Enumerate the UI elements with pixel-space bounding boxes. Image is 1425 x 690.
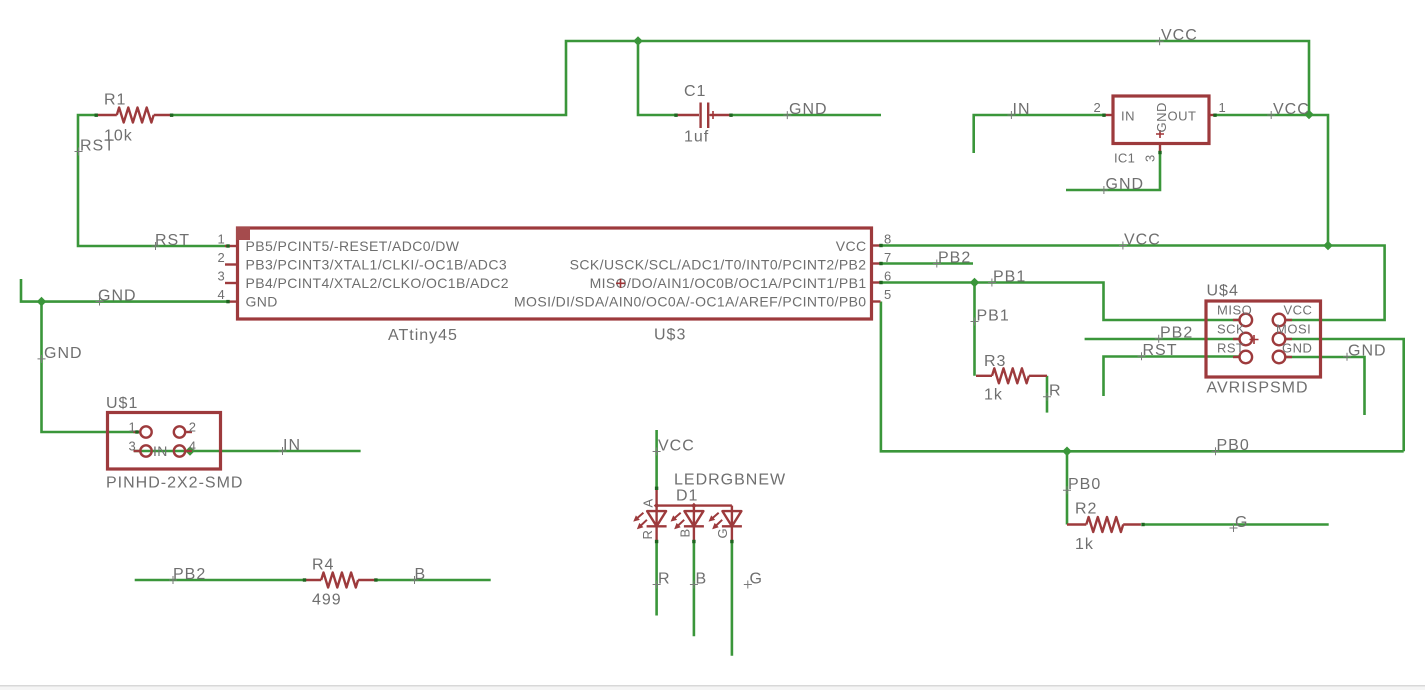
wire end dot IC1 in: [1102, 114, 1105, 117]
pin 8 stub: [873, 244, 881, 246]
pin 4 stub: [228, 300, 236, 302]
wire net GND stub at IC1 pin3: [1066, 153, 1160, 191]
net label PB1 vertical: [971, 308, 1010, 326]
R1 lead left: [96, 114, 117, 116]
wire net PB1 branch to R3: [973, 283, 976, 376]
pin 2 stub: [186, 431, 192, 433]
svg-text:GND: GND: [789, 101, 828, 118]
net label PB1 at pin6: [988, 269, 1026, 287]
net label IN at IC1: [1007, 101, 1030, 119]
wire end dot D1 G: [730, 540, 733, 543]
svg-text:OUT: OUT: [1168, 109, 1197, 124]
pin 1 stub: [225, 245, 236, 247]
capacitor C1: [676, 83, 731, 146]
net label VCC at IC1 out: [1267, 101, 1310, 119]
pad circle SCK: [1240, 333, 1253, 346]
pin 6 stub: [873, 281, 881, 283]
svg-text:PB3/PCINT3/XTAL1/CLKI/-OC1B/AD: PB3/PCINT3/XTAL1/CLKI/-OC1B/ADC3: [246, 257, 508, 273]
svg-text:1k: 1k: [984, 387, 1003, 404]
svg-text:R4: R4: [312, 557, 334, 574]
wire net IN at U$1 pins 3-4: [134, 450, 361, 453]
pin 5 stub: [873, 300, 881, 302]
svg-text:MOSI: MOSI: [1276, 322, 1311, 337]
junction at PB0 branch: [1062, 446, 1072, 456]
wire net G at D1 green cathode: [731, 542, 734, 656]
wire end dot C1 right: [729, 114, 732, 117]
svg-text:SCK: SCK: [1217, 322, 1245, 337]
svg-text:PB2: PB2: [938, 250, 971, 267]
bus junction dot A1: [654, 503, 660, 509]
svg-text:MISO: MISO: [1217, 303, 1252, 318]
pin 4 stub: [186, 450, 192, 452]
net label R below D1: [653, 571, 671, 589]
net label PB0 horizontal: [1212, 437, 1250, 455]
net label B below D1: [690, 571, 707, 589]
net label PB2 at SCK: [1155, 325, 1194, 343]
svg-text:3: 3: [1143, 154, 1158, 162]
net label IN at U$1: [279, 437, 302, 455]
AVRISP header U$4: [1206, 283, 1321, 397]
net label R at R3: [1043, 383, 1062, 401]
svg-text:2: 2: [1093, 100, 1101, 115]
wire end dot IC1 gnd: [1158, 151, 1161, 154]
pad circle VCC: [1273, 314, 1286, 327]
svg-text:VCC: VCC: [658, 438, 695, 455]
junction at U$1 pin4: [185, 446, 195, 456]
svg-text:3: 3: [217, 269, 225, 284]
origin square U$3: [236, 227, 250, 240]
svg-text:GND: GND: [246, 294, 278, 310]
wire net PB1 pin6 to AVRISP MISO: [881, 283, 1239, 321]
pad circle 2: [174, 426, 185, 437]
C1 plate left: [699, 103, 701, 129]
IC1 origin cross: [1156, 130, 1164, 138]
wire end dot C1 left: [674, 114, 677, 117]
stub RST: [1233, 356, 1239, 358]
wire end dot pin7: [879, 262, 882, 265]
net label VCC at pin8: [1119, 232, 1161, 250]
wire net R stub below R3: [1046, 376, 1049, 413]
pin 7 stub: [873, 262, 881, 264]
bottom strip: [0, 687, 1425, 690]
wire net GND stub at C1 right: [731, 114, 881, 117]
pad circle 4: [174, 445, 185, 456]
wire net PB2 at R4 left: [135, 579, 305, 582]
svg-text:MISO/DO/AIN1/OC0B/OC1A/PCINT1/: MISO/DO/AIN1/OC0B/OC1A/PCINT1/PB1: [590, 275, 867, 291]
junction at GND branch: [37, 297, 47, 307]
net label GND at IC1: [1100, 176, 1144, 194]
svg-text:7: 7: [884, 250, 892, 265]
wire end dot R4 left: [303, 578, 306, 581]
wire net IN stub at IC1: [974, 115, 1104, 153]
pad circle GND: [1273, 351, 1286, 364]
wire end dot pin8: [879, 244, 882, 247]
svg-text:5: 5: [884, 287, 892, 302]
R1 zigzag: [117, 108, 154, 123]
wire end dot pin1: [226, 244, 229, 247]
net label RST top left: [75, 138, 116, 156]
net label RST right: [1138, 342, 1178, 360]
net label VCC at D1: [653, 438, 695, 456]
R4 lead left: [305, 579, 322, 581]
svg-text:PB0: PB0: [1217, 437, 1250, 454]
origin cross U$3: [616, 279, 625, 288]
wire net VCC branch to C1: [638, 41, 676, 115]
bus junction dot A2: [691, 503, 697, 509]
svg-text:SCK/USCK/SCL/ADC1/T0/INT0/PCIN: SCK/USCK/SCL/ADC1/T0/INT0/PCINT2/PB2: [570, 257, 867, 273]
wire end dot D1 anode: [655, 487, 658, 490]
svg-text:IN: IN: [153, 443, 168, 459]
svg-text:PB2: PB2: [1160, 325, 1193, 342]
U$4 body box: [1206, 301, 1321, 377]
C1 lead left: [676, 114, 699, 116]
svg-text:3: 3: [128, 439, 136, 454]
wire end dot D1 B: [692, 540, 695, 543]
svg-text:GND: GND: [98, 288, 137, 305]
stub MISO: [1233, 319, 1239, 321]
pad circle RST: [1240, 351, 1253, 364]
pad circle MOSI: [1273, 333, 1286, 346]
R2 zigzag: [1086, 517, 1123, 532]
svg-text:1: 1: [217, 232, 225, 247]
svg-text:IC1: IC1: [1114, 151, 1135, 166]
wire net GND to U$1 pin1: [42, 302, 138, 432]
R4 zigzag: [321, 573, 358, 588]
resistor R4: [305, 557, 376, 609]
svg-text:2: 2: [189, 420, 197, 435]
svg-text:GND: GND: [1106, 176, 1145, 193]
wire net VCC top rail: [172, 41, 1309, 115]
wire net G from R2: [1143, 523, 1329, 526]
wire net RST to AVRISP RST: [1104, 357, 1240, 397]
svg-text:GND: GND: [44, 345, 83, 362]
svg-text:VCC: VCC: [1161, 27, 1198, 44]
wire net GND stub at AVRISP: [1286, 357, 1365, 415]
svg-text:D1: D1: [676, 488, 698, 505]
wire end dot R1 right: [170, 114, 173, 117]
svg-text:4: 4: [189, 439, 197, 454]
wire net R at D1 red cathode: [655, 542, 658, 616]
resistor R3: [976, 353, 1047, 404]
pin header U$1 PINHD-2X2-SMD: [106, 395, 243, 492]
svg-text:1: 1: [128, 420, 136, 435]
junction at VCC top branch: [633, 36, 643, 46]
svg-text:PB5/PCINT5/-RESET/ADC0/DW: PB5/PCINT5/-RESET/ADC0/DW: [246, 238, 460, 254]
net label GND at pin4: [96, 288, 137, 306]
svg-text:C1: C1: [684, 83, 706, 100]
anode lead: [655, 488, 657, 505]
svg-text:PB1: PB1: [993, 269, 1026, 286]
net label G below D1: [744, 571, 763, 589]
net label GND at C1: [783, 101, 827, 119]
svg-text:VCC: VCC: [1124, 232, 1161, 249]
wire net B at R4 right: [376, 579, 491, 582]
wire end dot U$1 pin1: [135, 430, 138, 433]
svg-text:PB4/PCINT4/XTAL2/CLKO/OC1B/ADC: PB4/PCINT4/XTAL2/CLKO/OC1B/ADC2: [246, 275, 509, 291]
svg-text:R2: R2: [1075, 501, 1097, 518]
svg-text:ATtiny45: ATtiny45: [388, 327, 458, 344]
anode bus bar: [657, 504, 732, 506]
bottom window edge line: [0, 685, 1425, 687]
svg-text:6: 6: [884, 269, 892, 284]
wire net VCC from IC1 OUT to rail down: [1215, 115, 1328, 246]
R2 lead right: [1123, 523, 1141, 525]
svg-text:U$4: U$4: [1207, 283, 1239, 300]
wire net PB0 branch to R2: [1066, 451, 1069, 524]
wire end dot pin4: [226, 300, 229, 303]
LED red element: [634, 506, 667, 542]
svg-text:A: A: [641, 498, 656, 507]
junction at IC1 OUT VCC: [1304, 110, 1314, 120]
svg-text:AVRISPSMD: AVRISPSMD: [1207, 380, 1309, 397]
pin 1 stub: [134, 431, 140, 433]
R2 lead left: [1067, 523, 1086, 525]
pin 3 stub: [225, 282, 236, 284]
svg-text:VCC: VCC: [1284, 303, 1313, 318]
svg-text:1k: 1k: [1075, 536, 1094, 553]
resistor R2: [1067, 501, 1141, 554]
stub SCK: [1233, 338, 1239, 340]
svg-text:RST: RST: [80, 138, 115, 155]
R4 lead right: [358, 579, 376, 581]
stub MOSI: [1286, 338, 1292, 340]
pad circle 3: [140, 445, 151, 456]
origin cross U$4: [1250, 335, 1259, 344]
svg-text:R1: R1: [104, 92, 126, 109]
pad circle MISO: [1240, 314, 1253, 327]
wire net GND from U$3 pin4: [21, 279, 228, 302]
svg-text:499: 499: [312, 592, 342, 609]
wire end dot D1 R: [655, 540, 658, 543]
wire end dot pin6: [879, 281, 882, 284]
svg-text:MOSI/DI/SDA/AIN0/OC0A/-OC1A/AR: MOSI/DI/SDA/AIN0/OC0A/-OC1A/AREF/PCINT0/…: [514, 294, 867, 310]
wire net VCC pin8 to AVRISP VCC: [881, 246, 1385, 321]
net label RST at pin1: [152, 232, 191, 250]
svg-text:PB1: PB1: [977, 308, 1010, 325]
IC1 pin 3 GND stub: [1159, 144, 1161, 153]
svg-text:GND: GND: [1282, 340, 1312, 355]
net label PB2 at pin7: [933, 250, 971, 268]
wire end dot R2 right: [1141, 523, 1144, 526]
net label PB0 vertical: [1063, 476, 1101, 494]
svg-text:LEDRGBNEW: LEDRGBNEW: [674, 472, 786, 489]
voltage regulator IC1: [1093, 96, 1226, 166]
svg-text:GND: GND: [1154, 102, 1169, 132]
ATtiny45 U$3: [217, 227, 891, 344]
svg-text:2: 2: [217, 250, 225, 265]
svg-text:R: R: [640, 530, 655, 540]
stub GND: [1286, 356, 1292, 358]
svg-text:B: B: [678, 528, 693, 537]
resistor R1: [96, 92, 172, 145]
svg-text:8: 8: [884, 232, 892, 247]
LED green element: [709, 506, 742, 542]
IC1 body box: [1113, 96, 1209, 144]
wire net B at D1 blue cathode: [693, 542, 696, 637]
wire net PB2 to AVRISP SCK: [1085, 338, 1239, 341]
R3 zigzag: [992, 368, 1029, 383]
svg-text:4: 4: [217, 287, 225, 302]
svg-text:PB0: PB0: [1068, 476, 1101, 493]
net label GND left vertical: [38, 345, 83, 363]
svg-text:G: G: [715, 528, 730, 539]
net label G at R2: [1230, 514, 1249, 532]
LED blue element: [671, 506, 704, 542]
svg-text:RST: RST: [155, 232, 190, 249]
U$1 body box: [108, 413, 221, 470]
net label PB2 at R4: [169, 566, 206, 584]
svg-text:1uf: 1uf: [684, 129, 709, 146]
svg-text:VCC: VCC: [836, 238, 867, 254]
pad circle 1: [140, 426, 151, 437]
junction at PB1 branch: [970, 278, 980, 288]
net label VCC top: [1156, 27, 1198, 45]
wire net RST left vertical from R1 to U$3 pin1: [78, 115, 228, 246]
C1 plate right: [707, 103, 709, 129]
R3 lead left: [976, 375, 992, 377]
wire net PB0 from U$3 pin5: [881, 302, 1404, 452]
wire net PB0 from AVRISP MOSI right side: [1286, 339, 1404, 451]
C1 lead right: [710, 114, 731, 116]
stub VCC: [1286, 319, 1292, 321]
wire end dot R1 left: [95, 114, 98, 117]
net label B at R4: [411, 566, 427, 584]
svg-text:U$3: U$3: [654, 327, 686, 344]
svg-text:IN: IN: [1121, 109, 1135, 124]
svg-text:PB2: PB2: [173, 566, 206, 583]
junction at VCC rail pin8: [1323, 241, 1333, 251]
svg-text:VCC: VCC: [1273, 101, 1310, 118]
svg-text:GND: GND: [1348, 343, 1387, 360]
U$3 body box: [238, 228, 872, 319]
C1 origin cross: [709, 111, 717, 119]
IC1 pin 1 OUT stub: [1209, 114, 1216, 116]
pin 3 stub: [134, 450, 140, 452]
wire end dot IC1 out: [1213, 114, 1216, 117]
R3 lead right: [1029, 375, 1047, 377]
svg-text:RST: RST: [1217, 340, 1245, 355]
svg-text:PINHD-2X2-SMD: PINHD-2X2-SMD: [106, 475, 243, 492]
svg-text:U$1: U$1: [106, 395, 138, 412]
net label GND right: [1343, 343, 1387, 361]
RGB LED D1: [634, 472, 786, 542]
wire net PB2 stub pin7: [881, 262, 973, 265]
pin 2 stub: [225, 263, 236, 265]
svg-text:R3: R3: [984, 353, 1006, 370]
IC1 pin 2 IN stub: [1104, 114, 1113, 116]
wire net VCC stub at D1 anode: [655, 430, 658, 488]
svg-text:RST: RST: [1143, 342, 1178, 359]
wire end dot R4 right: [374, 578, 377, 581]
svg-text:1: 1: [1219, 100, 1227, 115]
R1 lead right: [154, 114, 172, 116]
